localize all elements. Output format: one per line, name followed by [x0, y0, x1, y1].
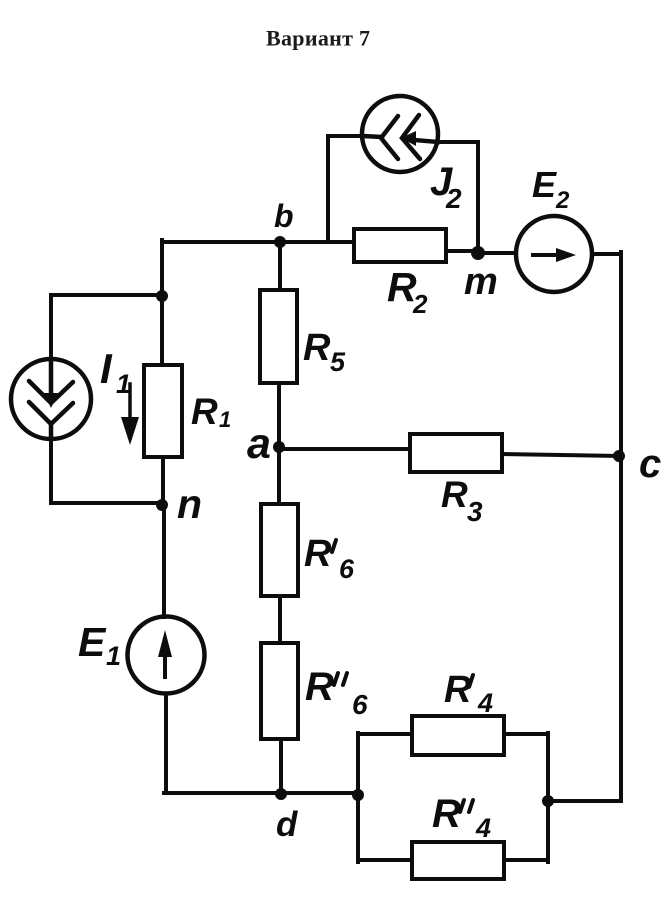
node top of I1/R1 block — [156, 290, 168, 302]
svg-text:a: a — [247, 420, 271, 468]
svg-text:2: 2 — [445, 183, 462, 214]
wire bottom horizontal — [164, 791, 358, 795]
svg-text:2: 2 — [412, 289, 428, 319]
node m — [464, 246, 498, 303]
svg-text:R: R — [191, 391, 218, 432]
wire R4 bottom branch left — [358, 858, 412, 862]
wire E2 to right rail — [592, 252, 621, 256]
resistor R''6 — [261, 643, 368, 739]
svg-text:Вариант 7: Вариант 7 — [266, 26, 370, 51]
svg-text:d: d — [276, 805, 298, 844]
svg-text:R: R — [305, 665, 334, 709]
wire R''6 to d — [279, 739, 283, 794]
node c — [613, 442, 661, 486]
svg-text:6: 6 — [352, 689, 368, 720]
wire I1 branch top — [51, 295, 162, 361]
wire n to E1 — [162, 505, 166, 617]
current source I1 — [11, 359, 91, 439]
svg-text:E: E — [78, 619, 107, 665]
wire middle column b to R5 — [278, 242, 282, 290]
node right rail junction — [542, 795, 554, 807]
svg-text:c: c — [639, 442, 661, 486]
svg-text:R: R — [441, 474, 468, 515]
resistor R5 — [260, 290, 346, 383]
svg-text:R: R — [304, 533, 332, 575]
label E1 — [78, 619, 121, 671]
resistor R2 — [354, 229, 446, 319]
label I1 — [100, 345, 131, 399]
wire right main vertical — [619, 252, 623, 801]
wire R2 to m — [446, 249, 478, 253]
wire b-wire top horizontal — [162, 240, 354, 244]
wire J2 loop right vertical — [438, 142, 478, 253]
arrow I1 current direction — [121, 384, 139, 445]
label J2 — [430, 160, 462, 214]
svg-text:5: 5 — [330, 347, 346, 377]
svg-text:m: m — [464, 261, 498, 303]
svg-text:b: b — [274, 198, 294, 234]
resistor R'4 — [412, 669, 504, 755]
svg-text:E: E — [532, 164, 557, 205]
resistor R''4 — [412, 792, 504, 879]
svg-text:4: 4 — [477, 688, 493, 718]
node n — [156, 481, 202, 527]
wire right rail to main vertical — [548, 799, 621, 803]
wire m to E2 — [478, 251, 516, 255]
wire E1 to bottom — [164, 694, 168, 793]
wire a to R3 — [279, 447, 410, 451]
svg-text:R: R — [432, 792, 461, 836]
wire J2 loop left vertical — [328, 136, 363, 242]
wire R4 block left rail — [356, 733, 360, 862]
wire R5 to a — [277, 383, 281, 447]
svg-text:R: R — [303, 327, 331, 369]
svg-text:R: R — [444, 669, 472, 711]
current source J2 — [362, 96, 438, 172]
node b — [274, 198, 294, 248]
wire R3 to c — [502, 454, 619, 456]
svg-text:4: 4 — [475, 813, 491, 843]
label E2 — [532, 164, 570, 214]
wire I1 branch bottom — [51, 439, 162, 503]
resistor R3 — [410, 434, 502, 527]
wire left vertical upper — [160, 240, 164, 296]
svg-text:3: 3 — [467, 496, 483, 527]
wire R4 block right rail — [546, 733, 550, 862]
wire R4 bottom branch right — [504, 858, 548, 862]
emf source E2 — [516, 216, 592, 292]
svg-text:1: 1 — [219, 407, 231, 432]
svg-text:2: 2 — [555, 187, 570, 214]
svg-text:6: 6 — [339, 554, 355, 584]
wire R1 branch lower — [161, 457, 165, 505]
emf source E1 — [128, 617, 205, 694]
resistor R1 — [144, 365, 231, 457]
svg-text:I: I — [100, 345, 113, 392]
svg-text:1: 1 — [106, 641, 121, 671]
node left rail junction — [352, 789, 364, 801]
svg-text:n: n — [177, 481, 202, 527]
wire R4 top branch right — [504, 732, 548, 736]
node d — [275, 788, 298, 844]
node a — [247, 420, 285, 468]
resistor R'6 — [261, 504, 355, 596]
wire a to R'6 — [277, 447, 281, 504]
wire R4 top branch left — [358, 732, 412, 736]
wire R'6 to R''6 — [278, 596, 282, 643]
wire R1 branch upper — [160, 296, 164, 365]
